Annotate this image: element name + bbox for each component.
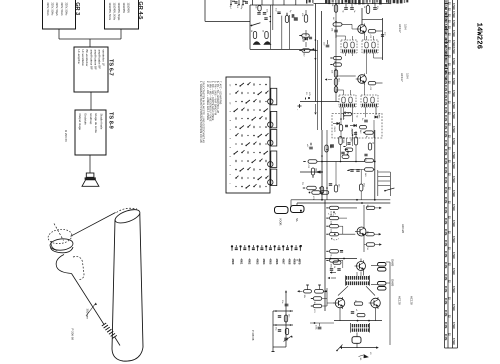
svg-text:C 5n0: C 5n0	[452, 138, 455, 145]
long pill bottom	[312, 191, 321, 194]
cord hook curve	[56, 255, 71, 274]
bottom tick	[341, 346, 343, 349]
svg-text:4866: 4866	[275, 259, 279, 265]
pill top F3	[365, 131, 374, 134]
rail x327	[326, 130, 328, 200]
diode AM det left	[305, 30, 307, 36]
svg-text:1M: 1M	[315, 168, 317, 171]
svg-text:R 47k: R 47k	[444, 92, 447, 99]
bias resistor between bases	[354, 302, 363, 305]
wire T4 down	[363, 272, 365, 276]
rail x382 upper	[382, 18, 384, 60]
bottom pot arrow	[337, 345, 343, 351]
resistor F4 r2	[330, 216, 339, 219]
svg-text:D 296 66: D 296 66	[64, 130, 68, 142]
svg-text:C 5n0: C 5n0	[452, 11, 455, 18]
svg-text:R 47k: R 47k	[444, 262, 447, 269]
resistor R3 h	[333, 23, 342, 26]
wire base T2	[340, 75, 356, 77]
right rail F5	[389, 262, 391, 345]
resistor R1	[334, 5, 337, 13]
keyboard switch block outline	[226, 77, 270, 193]
svg-text:C 5n0: C 5n0	[452, 68, 455, 75]
left terminal sq a	[300, 210, 302, 212]
arrow left top F5	[330, 272, 332, 274]
output thermistor	[352, 337, 361, 344]
input pills row1	[298, 290, 300, 292]
switch arm diag right	[385, 188, 394, 191]
terminal mark 4	[243, 247, 246, 249]
cap 330,184	[329, 183, 332, 185]
dial cord lower run	[72, 274, 105, 325]
rail vertical x321.5	[321, 11, 323, 130]
svg-text:110/245V, 50p/s: 110/245V, 50p/s	[117, 3, 120, 22]
switch block contact grid	[235, 84, 237, 86]
resistor F4 r1b arrowed	[366, 206, 375, 209]
terminal mark 6	[252, 247, 255, 249]
svg-text:110/245V, 50Hz: 110/245V, 50Hz	[113, 3, 116, 21]
svg-text:3,5H: 3,5H	[404, 24, 408, 30]
wire horizontal input	[205, 20, 250, 22]
transistor T5 output AC128	[335, 298, 345, 308]
terminal dot y101	[308, 97, 310, 99]
svg-text:AC128: AC128	[398, 296, 402, 305]
svg-text:R 47k: R 47k	[444, 167, 447, 174]
diode pack D2a	[378, 282, 387, 286]
terminal mark 9	[265, 245, 267, 247]
comp at 303,35	[302, 34, 310, 37]
left terminal sq b	[300, 245, 302, 247]
block GR3 rectifier box	[43, 0, 76, 29]
tap ladder right	[377, 170, 379, 196]
cap E2	[263, 12, 266, 14]
input network top bus	[250, 4, 314, 6]
input pills row2	[313, 297, 322, 300]
svg-text:OA85: OA85	[378, 113, 381, 119]
svg-text:BF-versterker: BF-versterker	[85, 50, 89, 67]
twin bus dots	[321, 199, 323, 201]
ground arrow mid	[315, 104, 317, 112]
det extra pill right	[368, 143, 371, 150]
resistor E8	[265, 32, 268, 39]
rail vertical x317.5	[317, 40, 319, 130]
bus y188 pill	[307, 186, 317, 190]
svg-text:C 5n0: C 5n0	[452, 190, 455, 197]
diode pack D2b	[378, 287, 387, 291]
arrow below r1	[333, 212, 335, 214]
svg-text:C 5n0: C 5n0	[452, 220, 455, 227]
wire T4 top	[360, 259, 362, 262]
det extra cap right	[364, 153, 367, 155]
svg-text:P 206 68: P 206 68	[71, 329, 75, 341]
wire bus horizontal	[59, 38, 121, 40]
input verticals to top edge	[252, 0, 254, 5]
svg-text:110/245V, 50c/s: 110/245V, 50c/s	[108, 3, 111, 21]
svg-text:TS 6-7: TS 6-7	[108, 59, 114, 76]
resistor F4 r4	[330, 233, 339, 236]
terminal mark 7	[256, 245, 258, 247]
terminal mark 11	[274, 245, 276, 247]
dial cord upper run	[71, 213, 116, 237]
pulley axis dashed	[54, 224, 64, 241]
svg-text:110/245V: 110/245V	[126, 3, 129, 14]
rail x336 component chain	[335, 4, 337, 102]
wire to rail dot	[313, 48, 315, 50]
wire T2 emitter to S4	[364, 84, 366, 95]
svg-text:LF-verstärker: LF-verstärker	[81, 50, 85, 67]
driver transformer secondary	[346, 281, 369, 285]
resistor det	[344, 112, 352, 115]
extra F3 dot	[346, 149, 348, 151]
pill v 361,187	[360, 184, 363, 191]
bus y101.5	[300, 101, 339, 103]
wire from switch area vertical	[204, 0, 206, 21]
solid arrow left y172	[316, 171, 321, 174]
wire GR3 to bus	[58, 29, 60, 39]
IF transformer S1 core	[342, 49, 356, 52]
svg-text:OA79: OA79	[333, 127, 336, 133]
IF transformer S3 core	[340, 104, 355, 107]
resistor F3 rail pill	[325, 145, 328, 152]
fuse holder 2	[291, 206, 305, 213]
shoe contact a	[253, 42, 260, 45]
svg-text:R 47k: R 47k	[444, 229, 447, 236]
resistor chain mid2	[334, 63, 342, 66]
svg-text:1W: 1W	[298, 259, 300, 262]
svg-text:4862: 4862	[248, 259, 252, 265]
svg-text:R 47k: R 47k	[444, 218, 447, 225]
wire S1 bottom stubs	[345, 53, 347, 56]
svg-text:4868: 4868	[287, 259, 291, 265]
wire T1 collector to S2	[364, 34, 366, 40]
svg-text:4861: 4861	[240, 259, 244, 265]
terminal mark 10	[269, 247, 272, 249]
wire base T3	[339, 233, 356, 235]
IF transformer S2 core	[363, 49, 377, 52]
svg-text:R 47k: R 47k	[444, 286, 447, 293]
terminal mark 15	[291, 245, 293, 247]
cap on rail x382	[381, 34, 384, 36]
wire det bottom	[343, 107, 345, 120]
extra F3 cap a	[347, 142, 350, 144]
svg-text:amplificateur BF: amplificateur BF	[89, 50, 93, 70]
input network left edge	[249, 5, 251, 49]
terminal mark 12	[277, 247, 280, 249]
svg-text:C 5n0: C 5n0	[452, 90, 455, 97]
inner vertical b	[272, 5, 274, 30]
svg-text:R 47k: R 47k	[444, 251, 447, 258]
resistor F4 r7	[330, 259, 339, 262]
svg-text:R 47k: R 47k	[444, 197, 447, 204]
svg-text:Output stage: Output stage	[78, 114, 82, 131]
bus drop to fuse1	[290, 200, 292, 206]
left cluster y170	[350, 169, 353, 171]
svg-text:AF117: AF117	[400, 73, 404, 82]
plus terminal mark	[298, 105, 302, 107]
cap E3	[264, 17, 267, 19]
svg-text:C 5n0: C 5n0	[452, 252, 455, 259]
resistor R2b	[334, 79, 337, 86]
svg-text:GR 4-5: GR 4-5	[137, 1, 143, 19]
terminal mark 16	[295, 247, 298, 249]
switch arm	[251, 25, 253, 27]
terminal mark 13	[282, 245, 284, 247]
cap base T1	[334, 29, 338, 31]
svg-text:NA.: NA.	[295, 218, 298, 222]
cap pair a	[344, 7, 348, 9]
left cluster 345-354	[345, 148, 353, 151]
svg-text:110/245V: 110/245V	[122, 3, 125, 14]
svg-text:C 5n0: C 5n0	[452, 338, 455, 345]
bottom arrow	[376, 347, 378, 349]
svg-text:C 5n0: C 5n0	[452, 112, 455, 119]
fuse holder 1	[275, 207, 289, 214]
transistor T3 AF preamp AC126	[357, 227, 366, 236]
svg-text:R 47k: R 47k	[444, 310, 447, 317]
svg-text:4864: 4864	[262, 259, 266, 265]
resistor left low	[302, 49, 310, 52]
dash arrow y278	[328, 277, 330, 279]
rail T3 collector	[363, 205, 365, 226]
svg-text:R 47k: R 47k	[444, 140, 447, 147]
svg-text:R 47k: R 47k	[444, 107, 447, 114]
cord tension spring	[102, 323, 106, 326]
wire 356 link	[355, 145, 357, 162]
resistor F3b	[354, 137, 357, 145]
svg-text:R 47k: R 47k	[444, 158, 447, 165]
resistor R2a	[334, 70, 337, 78]
wire GR4-5 to bus	[120, 29, 122, 39]
driver transformer primary	[346, 276, 369, 280]
det column wire c	[373, 120, 375, 138]
cap E4	[277, 11, 280, 13]
terminal mark 3	[239, 245, 241, 247]
diode det 1	[337, 122, 340, 125]
svg-text:4865: 4865	[269, 259, 273, 265]
svg-text:GR 3: GR 3	[74, 2, 80, 15]
IF transformer S4 core	[362, 104, 377, 107]
svg-text:Eindtrap: Eindtrap	[89, 114, 93, 125]
svg-text:LF-amplifier: LF-amplifier	[77, 50, 81, 65]
tube back rim dashed	[117, 208, 138, 212]
left cap cluster	[309, 146, 313, 148]
tuning spindle pulley top rim dashed	[47, 228, 73, 245]
wire out trans down	[356, 333, 358, 337]
svg-text:R 47k: R 47k	[444, 177, 447, 184]
bottom bus	[340, 347, 377, 349]
dial scale tube body	[112, 214, 143, 362]
svg-text:C 5n0: C 5n0	[452, 30, 455, 37]
dashed bracket F4	[328, 214, 336, 216]
terminal mark 5	[248, 245, 250, 247]
wire 361 link F3	[360, 170, 362, 185]
svg-text:Endstufe: Endstufe	[83, 114, 87, 126]
svg-text:C 5n0: C 5n0	[452, 322, 455, 329]
svg-text:R 47k: R 47k	[444, 99, 447, 106]
resistor F4 r3	[330, 225, 339, 228]
wire TS6-7 to TS8-9	[90, 92, 92, 110]
cap E1	[257, 12, 260, 14]
resistor R4	[366, 6, 369, 14]
top right pill F3	[339, 137, 342, 145]
wire bus to TS6-7	[89, 39, 91, 47]
base wire T1	[342, 23, 352, 25]
diode pack D1b	[378, 268, 387, 272]
svg-text:300 mm: 300 mm	[86, 309, 90, 320]
cluster above driver	[333, 261, 341, 264]
svg-text:R 47k: R 47k	[444, 207, 447, 214]
mid cluster caps	[351, 311, 354, 313]
svg-text:OA85: OA85	[391, 259, 395, 267]
svg-text:7. AFC – SCHARFAB: 7. AFC – SCHARFAB	[219, 81, 222, 105]
comp at 306	[304, 15, 307, 23]
wire y36 link	[336, 35, 346, 37]
resistor E1	[258, 5, 261, 11]
svg-text:AF117: AF117	[398, 24, 402, 33]
svg-text:R 47k: R 47k	[444, 85, 447, 92]
transistor T6 output AC128	[371, 298, 381, 308]
cut-off top components row	[230, 0, 232, 4]
volume pot network	[285, 292, 287, 347]
wire to T5 base	[327, 302, 335, 304]
arrow T2 base feed	[325, 79, 327, 81]
ratio detector dashed box	[332, 114, 382, 139]
svg-text:AF116: AF116	[342, 137, 345, 144]
det lower stub a	[346, 138, 348, 146]
svg-text:R 47k: R 47k	[444, 322, 447, 329]
svg-text:C 5n0: C 5n0	[452, 152, 455, 159]
terminal mark 8	[260, 247, 263, 249]
svg-text:C 5n0: C 5n0	[452, 102, 455, 109]
tube top opening ellipse	[113, 207, 141, 226]
resistor T3 out	[366, 233, 375, 236]
speaker out arrow	[364, 355, 369, 359]
arrow annotation 300mm	[86, 304, 96, 317]
svg-text:220V, 50p/s: 220V, 50p/s	[55, 3, 58, 17]
svg-text:C 5n0: C 5n0	[452, 126, 455, 133]
cap at rail	[326, 44, 330, 46]
cap pair b	[350, 7, 354, 9]
transistor T4 driver AC125	[357, 262, 366, 271]
svg-text:C 5n0: C 5n0	[452, 162, 455, 169]
cap bottom mid	[318, 326, 322, 328]
inner vertical c	[281, 16, 283, 50]
output transformer	[351, 324, 369, 327]
transistor T1 IF amplifier AF117	[358, 25, 367, 34]
bracket outline dashed	[73, 257, 84, 280]
svg-text:C 5n0: C 5n0	[452, 20, 455, 27]
svg-text:AC126: AC126	[401, 224, 405, 234]
svg-text:C 5n0: C 5n0	[452, 78, 455, 85]
resistor E7	[253, 32, 256, 39]
svg-text:C 5n0: C 5n0	[452, 204, 455, 211]
svg-text:1. WAVEBAND SWITCH SHOWN IN PO: 1. WAVEBAND SWITCH SHOWN IN POSITION OFF…	[199, 81, 202, 143]
resistor T2 load	[368, 82, 376, 85]
rail x362 collector	[361, 8, 363, 25]
svg-text:R 47k: R 47k	[444, 78, 447, 85]
bottom cluster bus	[310, 322, 334, 324]
top bus F5	[325, 258, 357, 260]
data strip vertical rules	[444, 0, 446, 348]
pill v 336,188	[334, 185, 337, 192]
svg-text:C 5n0: C 5n0	[452, 236, 455, 243]
input row1 stubs	[307, 285, 309, 290]
diode det 2	[354, 124, 357, 127]
svg-text:R 47k: R 47k	[444, 298, 447, 305]
IF transformer S2 dashed box	[362, 40, 378, 53]
svg-text:amplificatore BF: amplificatore BF	[93, 50, 97, 70]
svg-text:3,5H: 3,5H	[406, 73, 410, 79]
input pills row3	[313, 304, 322, 307]
terminal mark 2	[235, 247, 238, 249]
svg-text:C 5n0: C 5n0	[452, 58, 455, 65]
svg-text:R 47k: R 47k	[444, 240, 447, 247]
rail x325 lower	[324, 200, 326, 311]
transistor T2 IF amplifier AF117	[358, 75, 367, 84]
resistor R2c	[334, 87, 337, 93]
wire 340 link	[340, 145, 342, 162]
det pill b	[360, 126, 367, 129]
svg-text:R 47k: R 47k	[444, 123, 447, 130]
rail vertical x315.4	[314, 4, 316, 102]
resistor v 313,172	[311, 168, 314, 175]
diode pack D1a	[378, 263, 387, 267]
svg-text:P 306 68: P 306 68	[251, 330, 255, 341]
terminal mark 1	[231, 245, 233, 247]
twin bus lower b	[297, 202, 390, 204]
det lower stub b	[352, 138, 354, 146]
wire TS8-9 to speaker	[89, 155, 91, 173]
svg-text:OA85: OA85	[391, 279, 395, 287]
bus y172	[300, 171, 322, 173]
smudged cut text top edge	[306, 0, 307, 4]
wire T1 collector top	[362, 18, 383, 20]
input network bottom bus	[250, 48, 314, 50]
resistor y160 right	[365, 159, 374, 162]
wire S3 top stubs	[343, 90, 345, 95]
inner vertical a	[269, 5, 271, 49]
shoe contact b	[264, 42, 271, 45]
det cap a	[345, 124, 348, 126]
svg-text:DRUCKTASTEN IN RUHESTELLUNG GE: DRUCKTASTEN IN RUHESTELLUNG GEZEICHNET A…	[202, 81, 205, 143]
svg-text:220V, 50c/s: 220V, 50c/s	[60, 3, 63, 17]
wire 336 link F3	[335, 162, 337, 186]
cap det left	[309, 36, 312, 38]
terminal mark 17	[299, 245, 301, 247]
svg-text:C 5n0: C 5n0	[452, 268, 455, 275]
svg-text:3Ω: 3Ω	[359, 358, 361, 361]
wire x327 col	[326, 288, 328, 306]
resistor T1 load	[368, 30, 376, 33]
svg-text:C 5n0: C 5n0	[452, 176, 455, 183]
resistor chain mid1	[334, 56, 342, 59]
twin bus lower a	[291, 199, 390, 201]
svg-text:R 47k: R 47k	[444, 149, 447, 156]
pulley cord wraps	[49, 238, 73, 252]
svg-text:amplificador BF: amplificador BF	[98, 50, 102, 70]
svg-text:C 5n0: C 5n0	[452, 3, 455, 10]
junction dots E	[270, 16, 272, 18]
svg-text:C 5n0: C 5n0	[452, 47, 455, 54]
dots y320	[357, 320, 359, 322]
cap right of box	[291, 14, 293, 18]
svg-text:14W226: 14W226	[475, 23, 483, 50]
data strip bottom rule	[445, 347, 458, 349]
bus drop to fuse2	[296, 203, 298, 205]
transformer to T5 wire	[366, 286, 375, 295]
resistor y161 left	[308, 160, 317, 163]
svg-text:R 47k: R 47k	[444, 187, 447, 194]
